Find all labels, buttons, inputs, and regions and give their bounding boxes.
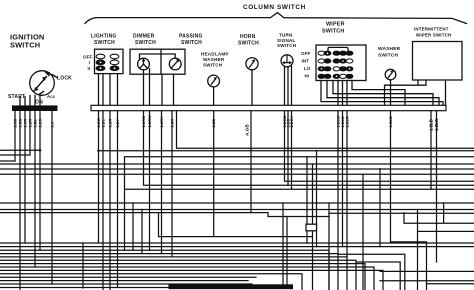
svg-text:WASHER: WASHER: [378, 46, 401, 52]
ladder line y270.4: [0, 270, 383, 290]
column switch connector rail: [91, 105, 446, 110]
wire grid: [0, 111, 474, 290]
ignition wires below bar: [15, 111, 52, 290]
svg-text:1.2LR: 1.2LR: [345, 116, 350, 127]
dimmer passing leads: [144, 69, 174, 106]
svg-text:SWITCH: SWITCH: [238, 40, 259, 46]
horn switch symbol: [246, 58, 258, 70]
ladder line y253.6: [0, 253, 338, 255]
svg-text:LOCK: LOCK: [57, 76, 72, 82]
ladder line y256.9: [0, 256, 347, 258]
dimmer switch symbol: [138, 58, 150, 70]
turn signal leads: [285, 66, 292, 105]
ladder line y273.8: [0, 274, 302, 290]
dimmer wires below rail: [144, 111, 474, 257]
ladder line y267: [0, 267, 374, 290]
headlamp washer lead: [213, 87, 215, 105]
wiper switch leads straight: [338, 81, 347, 106]
ladder line y284: [0, 283, 252, 285]
svg-text:SWITCH: SWITCH: [94, 40, 115, 46]
wiper switch leads routed right: [321, 81, 443, 106]
long bus y203: [0, 202, 474, 204]
contact ovals lighting: [96, 54, 119, 70]
svg-text:SIGNAL: SIGNAL: [277, 38, 296, 43]
svg-text:I: I: [89, 60, 90, 65]
svg-text:INT: INT: [302, 59, 310, 64]
intermittent wiper leads: [385, 80, 446, 105]
ignition switch connector bar: [12, 105, 58, 111]
svg-text:Acc: Acc: [47, 94, 56, 99]
wire to left edge y155: [0, 154, 30, 156]
svg-text:WIPER SWITCH: WIPER SWITCH: [416, 32, 451, 37]
right step wires: [338, 203, 474, 290]
svg-text:TURN: TURN: [279, 33, 293, 38]
svg-text:START: START: [8, 94, 25, 100]
svg-text:SWITCH: SWITCH: [378, 52, 398, 58]
svg-text:SWITCH: SWITCH: [135, 40, 156, 46]
washer switch lead: [390, 80, 392, 105]
svg-text:1.2GY: 1.2GY: [289, 115, 294, 127]
dimmer / passing switch box: [130, 49, 185, 74]
ignition switch leads to bar: [20, 95, 40, 105]
ladder line y263.6: [0, 264, 365, 290]
horn wire: [250, 111, 252, 213]
headlamp washer wire: [159, 111, 313, 237]
ladder line y277.2: [0, 276, 256, 278]
svg-text:INTERMITTENT: INTERMITTENT: [414, 27, 449, 32]
wire code labels: [13, 115, 440, 136]
svg-text:1.6R: 1.6R: [170, 119, 175, 128]
svg-text:II: II: [88, 66, 91, 71]
ignition switch key arrows: [34, 72, 57, 95]
svg-text:2.1: 2.1: [50, 121, 55, 128]
long bus y169: [0, 168, 474, 170]
ladder line y243: [0, 242, 474, 244]
junction dot lighting: [97, 149, 100, 152]
wire to left edge y161: [0, 160, 15, 162]
wiper switch inner bracket: [328, 47, 348, 51]
svg-text:OFF: OFF: [83, 54, 92, 59]
svg-text:SWITCH: SWITCH: [10, 41, 40, 50]
wiper switch box: [316, 45, 366, 81]
svg-text:1.5LB: 1.5LB: [388, 116, 393, 127]
dimmer passing divider: [160, 49, 162, 74]
svg-text:1.2LW: 1.2LW: [434, 118, 439, 131]
svg-text:OFF: OFF: [301, 51, 310, 56]
turn signal switch symbol: [281, 55, 293, 67]
ladder line y280.6: [0, 280, 248, 282]
right bottom horizontals: [380, 271, 474, 283]
svg-text:LIGHTING: LIGHTING: [91, 34, 117, 40]
lighting switch box: [95, 49, 124, 73]
svg-text:HORN: HORN: [240, 34, 256, 40]
ladder line y246.6: [0, 246, 474, 248]
svg-text:SWITCH: SWITCH: [322, 29, 344, 35]
washer switch symbol: [385, 69, 396, 80]
svg-text:SWITCH: SWITCH: [181, 40, 202, 46]
bottom black connector bar: [169, 284, 294, 289]
svg-text:1.2RW: 1.2RW: [147, 115, 152, 128]
long bus y164: [0, 163, 474, 165]
wire corner x124.5: [125, 157, 474, 251]
junction dot: [39, 149, 42, 152]
wire to left edge y150: [0, 149, 40, 151]
svg-text:WASHER: WASHER: [203, 57, 225, 62]
svg-text:A.GB: A.GB: [245, 124, 250, 136]
svg-text:COLUMN SWITCH: COLUMN SWITCH: [243, 4, 306, 11]
svg-text:1.2RB: 1.2RB: [141, 116, 146, 128]
hanging verticals mid right: [83, 151, 418, 290]
svg-text:WIPER: WIPER: [326, 22, 345, 28]
svg-text:B ST1 IG ACC S2: B ST1 IG ACC S2: [13, 107, 45, 111]
wire bus y150.7: [99, 150, 474, 152]
intermittent wires below rail: [431, 111, 437, 262]
svg-text:1.2LB: 1.2LB: [429, 119, 434, 131]
ladder line y250.2: [0, 250, 329, 290]
ladder line y287.5: [0, 287, 238, 289]
ignition switch arrowheads: [34, 72, 50, 91]
svg-text:DIMMER: DIMMER: [133, 34, 155, 40]
svg-text:1.2Y: 1.2Y: [115, 119, 120, 128]
intermittent wiper switch box: [413, 42, 463, 81]
svg-text:LO: LO: [304, 66, 311, 71]
svg-text:1.2R: 1.2R: [108, 119, 113, 128]
long bus y212.6: [0, 213, 474, 217]
dimmer internal wire: [140, 54, 176, 60]
svg-text:1.2RY: 1.2RY: [159, 116, 164, 128]
washer wire below rail: [391, 111, 427, 290]
svg-text:HI: HI: [305, 74, 310, 79]
ignition switch rotary circle: [30, 71, 55, 96]
horn switch lead: [251, 70, 253, 106]
svg-text:1.2G: 1.2G: [38, 118, 43, 127]
wiper wires below rail: [338, 111, 347, 290]
lighting switch leads: [99, 74, 118, 106]
long bus y174.3: [0, 173, 474, 175]
lighting wires below rail: [99, 111, 118, 290]
headlamp washer switch symbol: [208, 75, 220, 87]
svg-text:1.5B: 1.5B: [211, 119, 216, 128]
column switch bracket: [85, 13, 467, 24]
svg-text:PASSING: PASSING: [179, 34, 203, 40]
svg-text:SWITCH: SWITCH: [203, 63, 223, 68]
connector block on wire: [306, 224, 317, 231]
svg-text:ON: ON: [35, 100, 43, 106]
passing switch symbol: [169, 58, 181, 70]
svg-text:HEADLAMP: HEADLAMP: [201, 52, 229, 57]
contact ovals wiper: [318, 51, 353, 78]
svg-text:SWITCH: SWITCH: [277, 43, 297, 48]
turn signal wires below rail: [285, 111, 474, 190]
ladder line y260.2: [0, 260, 356, 290]
long bus y209.5: [0, 209, 474, 211]
svg-text:1.2L: 1.2L: [101, 119, 106, 128]
